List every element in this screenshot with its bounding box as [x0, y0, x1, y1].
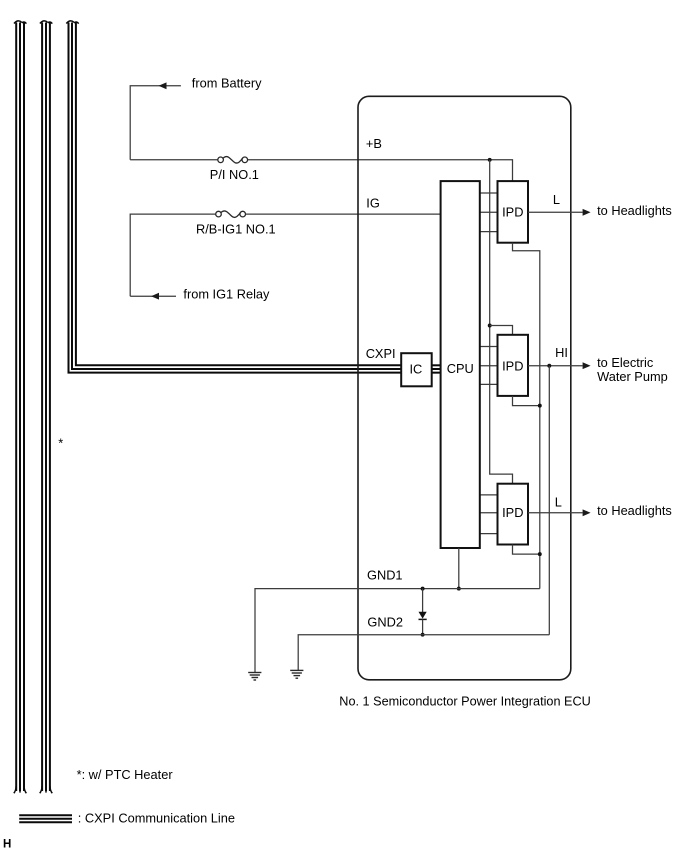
wire HI sense to GND2: [548, 366, 550, 635]
svg-text:L: L: [555, 494, 562, 509]
arrow to Electric Water Pump: [583, 362, 591, 369]
node IPD2 return junction: [538, 404, 542, 408]
wire CPU ground: [458, 548, 460, 589]
wire IG feed: [130, 214, 441, 296]
svg-text:IG: IG: [366, 195, 380, 210]
svg-text:to Headlights: to Headlights: [597, 203, 672, 218]
svg-text:IPD: IPD: [502, 359, 523, 374]
svg-text:*: w/ PTC Heater: *: w/ PTC Heater: [77, 767, 174, 782]
CXPI bus 1 top cap: [14, 21, 26, 24]
arrow to Headlights lower: [583, 509, 591, 516]
CXPI bus 2 top cap: [40, 21, 52, 24]
wire IPD2 output HI: [528, 365, 583, 367]
legend CXPI Communication Line symbol: [19, 815, 72, 822]
svg-text:CXPI: CXPI: [366, 346, 396, 361]
ECU enclosure box: [358, 96, 571, 680]
wire +B branch vertical: [490, 160, 513, 484]
node diode anode junction: [421, 587, 425, 591]
IC block (CXPI transceiver): [401, 353, 432, 386]
fuse R/B-IG1 NO.1: [216, 211, 246, 218]
diode D1: [419, 589, 427, 635]
wire GND2 net: [298, 635, 549, 671]
arrow from Battery: [159, 82, 167, 89]
node IPD2 feed junction: [488, 324, 492, 328]
wire from Battery lead: [130, 86, 181, 160]
svg-text:from IG1 Relay: from IG1 Relay: [183, 287, 270, 302]
node CPU ground junction: [457, 587, 461, 591]
wire IPD3 return: [513, 545, 540, 555]
IPD block U3 (headlight L lower): [498, 484, 529, 545]
CXPI bus 3 (line to ECU, turns right into CXPI input): [69, 23, 402, 373]
svg-text:Water Pump: Water Pump: [597, 369, 668, 384]
node diode cathode junction: [421, 633, 425, 637]
node +B branch junction: [488, 158, 492, 162]
wire IPD1 output L: [528, 211, 583, 213]
ground symbol G2: [290, 670, 303, 678]
wire CPU-IPD1 connectors: [480, 193, 498, 232]
wire GND1 net: [255, 589, 540, 673]
svg-text:to Headlights: to Headlights: [597, 503, 672, 518]
wire IPD1 return chain: [513, 243, 540, 589]
svg-text:GND1: GND1: [367, 567, 403, 582]
IPD block U1 (headlight L upper): [498, 181, 529, 243]
wire IPD3 output L: [528, 512, 583, 514]
wire IPD2 feed: [490, 326, 513, 335]
CXPI bus 2 bottom flare: [40, 786, 53, 793]
wire from IG1 Relay lead: [130, 295, 176, 297]
CXPI bus 1 (left shielded line): [16, 23, 24, 792]
svg-text:HI: HI: [555, 345, 568, 360]
svg-text:H: H: [3, 839, 11, 851]
svg-text:L: L: [553, 192, 560, 207]
CXPI bus 1 bottom flare: [14, 786, 27, 793]
CXPI bus 3 top cap: [66, 21, 78, 24]
node IPD3 return junction: [538, 552, 542, 556]
svg-text:CPU: CPU: [447, 361, 474, 376]
svg-text:IC: IC: [409, 362, 422, 377]
fuse P/I NO.1: [218, 157, 248, 164]
svg-text:to Electric: to Electric: [597, 355, 654, 370]
CPU block: [441, 181, 480, 548]
svg-text:P/I NO.1: P/I NO.1: [210, 167, 259, 182]
wire IPD2 return: [513, 396, 540, 406]
arrow from IG1 Relay: [151, 293, 159, 300]
svg-text:No. 1 Semiconductor Power Inte: No. 1 Semiconductor Power Integration EC…: [339, 693, 591, 708]
svg-text:R/B-IG1 NO.1: R/B-IG1 NO.1: [196, 221, 276, 236]
svg-text:*: *: [58, 436, 63, 451]
svg-text:GND2: GND2: [367, 615, 403, 630]
svg-text:IPD: IPD: [502, 204, 523, 219]
wire CPU-IPD3 connectors: [480, 495, 498, 534]
IPD block U2 (electric water pump): [498, 335, 529, 396]
CXPI bus segment IC to CPU: [432, 365, 441, 372]
svg-text:: CXPI Communication Line: : CXPI Communication Line: [78, 810, 235, 825]
svg-text:from Battery: from Battery: [192, 76, 262, 91]
CXPI bus 2 (middle shielded line): [42, 23, 50, 792]
arrow to Headlights upper: [583, 209, 591, 216]
ground symbol G1: [248, 673, 261, 681]
node HI sense junction: [547, 364, 551, 368]
wire +B feed: [130, 160, 512, 181]
wire CPU-IPD2 connectors: [480, 347, 498, 385]
svg-text:IPD: IPD: [502, 505, 523, 520]
svg-text:+B: +B: [366, 136, 382, 151]
